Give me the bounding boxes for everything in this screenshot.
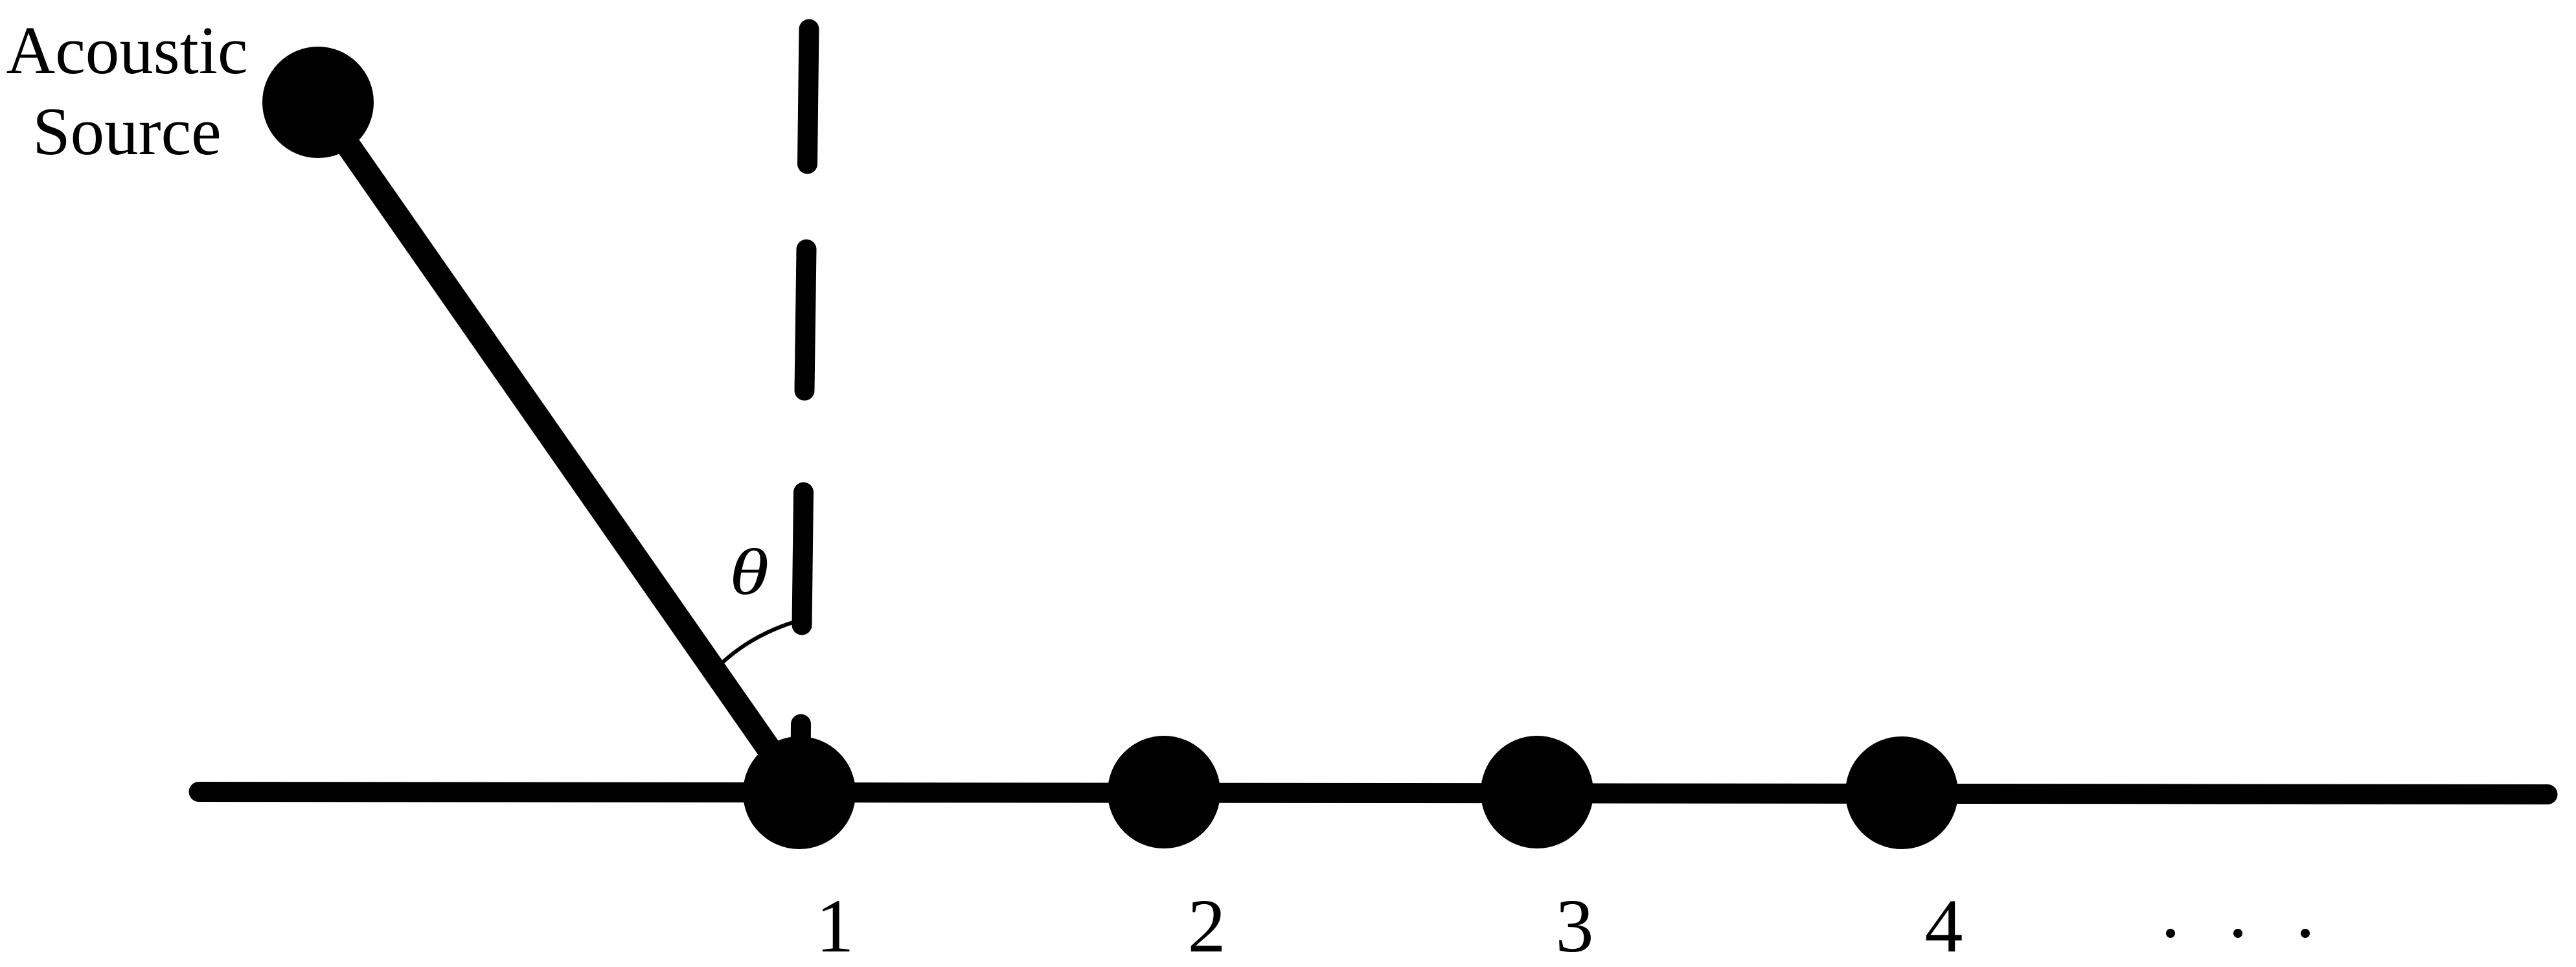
svg-text:4: 4 xyxy=(1925,883,1963,967)
angle arc xyxy=(721,622,795,664)
label: Acoustic Source (two lines) xyxy=(6,12,247,169)
ellipsis dot 3 xyxy=(2301,929,2310,938)
dash segment b xyxy=(804,249,806,391)
ellipsis dot 1 xyxy=(2166,929,2175,938)
dash segment c xyxy=(802,492,804,625)
svg-text:θ: θ xyxy=(729,535,769,608)
ellipsis dot 2 xyxy=(2233,929,2242,938)
sensor 1 xyxy=(743,736,856,849)
wire: diagonal ray from acoustic source to sensor 1 xyxy=(318,102,802,796)
svg-text:2: 2 xyxy=(1188,883,1226,967)
svg-text:Acoustic: Acoustic xyxy=(6,12,247,88)
svg-text:1: 1 xyxy=(816,883,854,967)
svg-text:3: 3 xyxy=(1556,883,1594,967)
sensor 4 xyxy=(1845,736,1958,849)
sensor 3 xyxy=(1481,736,1593,848)
dash segment d (nub above sensor 1) xyxy=(791,724,812,764)
svg-text:Source: Source xyxy=(32,93,222,169)
acoustic source dot xyxy=(262,47,374,158)
wire: dashed broadside reference line xyxy=(801,29,809,764)
wire: array axis horizontal line xyxy=(199,792,2548,795)
dash segment a xyxy=(808,29,810,164)
sensor 2 xyxy=(1108,736,1220,848)
